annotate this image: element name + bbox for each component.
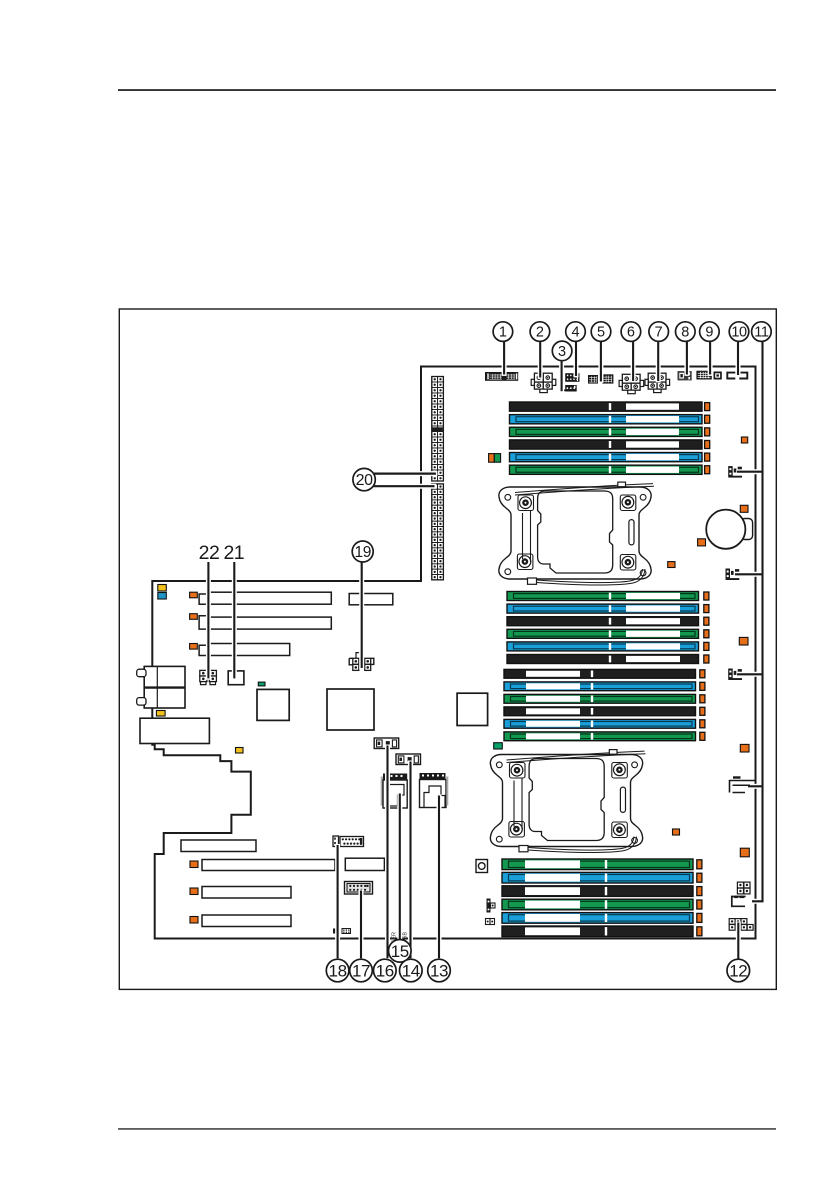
DIMM latch B-3: [704, 617, 709, 625]
bottom PCIe slot row 3: [190, 917, 198, 924]
svg-text:21: 21: [223, 542, 244, 564]
DIMM latch A-1: [705, 403, 710, 411]
callout 19: [352, 541, 373, 562]
connector 14 (SATA): [396, 754, 421, 765]
callout 4: [566, 322, 586, 342]
orange component left col 2: [190, 614, 198, 620]
motherboard outline: [152, 367, 755, 939]
connector 2: [534, 373, 543, 382]
leader line 9: [708, 341, 713, 376]
connector 17 header: [345, 882, 373, 895]
DIMM latch D-2: [697, 873, 702, 882]
leader line 7: [656, 341, 661, 383]
green component: [258, 682, 265, 686]
right column orange component 3: [739, 637, 748, 645]
DIMM slot C-2 (B): [504, 682, 696, 691]
connector 3: [562, 389, 567, 391]
callout 16: [374, 959, 397, 982]
callout 10: [729, 322, 749, 342]
DIMM slot C-5 (B): [504, 719, 696, 728]
chip 1: [257, 689, 289, 720]
small component left of bank D: [487, 899, 491, 913]
svg-text:11: 11: [754, 325, 769, 341]
bottom PCIe slot row 0: [181, 840, 256, 852]
leader line 18: [335, 844, 340, 960]
connector 13 (internal LAN): [420, 773, 446, 780]
callout 15: [389, 940, 412, 963]
PCIe slot row 3: [209, 644, 289, 656]
svg-text:9: 9: [705, 325, 713, 341]
leader line 20 lower: [374, 484, 436, 489]
DIMM latch C-4: [700, 707, 705, 715]
svg-text:3: 3: [558, 344, 566, 360]
connector 7: [648, 373, 657, 382]
svg-text:13: 13: [430, 961, 448, 980]
CPU socket 1 (upper): [499, 482, 654, 585]
DIMM latch C-5: [700, 720, 705, 728]
DIMM slot B-2 (B): [507, 604, 699, 613]
DIMM slot D-3 (K): [502, 886, 693, 897]
connector 18 header: [333, 836, 339, 847]
DIMM slot B-3 (K): [507, 617, 699, 626]
connector 1: [485, 372, 518, 381]
bottom PCIe slot row 1 right segment: [345, 858, 384, 870]
fan stub line 1: [742, 469, 762, 474]
connector 10: [727, 373, 735, 379]
DIMM slot B-6 (K): [507, 655, 699, 664]
right column orange component 2: [740, 505, 748, 512]
svg-text:1: 1: [499, 325, 507, 341]
DIMM latch A-3: [705, 428, 710, 436]
callout 8: [676, 322, 696, 342]
DIMM slot D-4 (G): [502, 899, 693, 910]
DIMM latch C-6: [700, 732, 705, 740]
DIMM slot C-1 (K): [504, 669, 696, 678]
CMOS battery: [706, 510, 745, 549]
right column orange component 5: [740, 848, 749, 857]
DIMM slot A-1 (K): [510, 402, 703, 411]
DIMM slot B-4 (G): [507, 629, 699, 638]
orange component near socket 2: [673, 829, 680, 835]
bottom PCIe slot row 2: [190, 888, 198, 895]
front panel header upper block (item 20): [432, 377, 438, 383]
leader line 13: [437, 795, 442, 960]
DIMM latch A-5: [705, 453, 710, 461]
svg-text:4: 4: [571, 325, 579, 341]
svg-text:8: 8: [681, 325, 689, 341]
DIMM latch D-5: [697, 913, 702, 922]
orange+green component pair left of bank A: [489, 454, 495, 463]
callout 2: [530, 322, 550, 342]
DIMM slot A-3 (G): [510, 427, 703, 436]
DIMM slot D-2 (B): [502, 872, 693, 883]
PCIe slot row 1 bracket: [199, 594, 208, 604]
DIMM slot C-3 (G): [504, 694, 696, 703]
DIMM slot B-1 (G): [507, 592, 699, 601]
callout 9: [700, 322, 720, 342]
PCIe slot row 2: [209, 617, 331, 629]
orange component left of battery: [698, 539, 706, 546]
DIMM latch C-2: [700, 682, 705, 690]
orange component left col 1: [190, 592, 198, 598]
fan connector FAN4 (item 11): [730, 781, 756, 793]
callout 6: [621, 322, 641, 342]
connector 5: [588, 375, 598, 384]
DIMM latch B-6: [704, 655, 709, 663]
connector 19 pin block: [349, 658, 353, 665]
leader line 15: [397, 793, 402, 941]
DIMM latch D-4: [697, 900, 702, 909]
DIMM latch C-1: [700, 670, 705, 678]
callout 13: [428, 959, 451, 982]
DIMM latch B-1: [704, 592, 709, 600]
connector 4: [565, 373, 579, 382]
2-pin jumper left of bank D: [486, 919, 491, 925]
svg-text:19: 19: [354, 544, 370, 561]
blue component top-left: [158, 593, 167, 600]
chip 3: [457, 693, 488, 725]
DIMM latch B-2: [704, 605, 709, 613]
rear I/O D-sub connector: [144, 666, 185, 708]
svg-text:2: 2: [536, 325, 544, 341]
fan connector FAN1 (item 11): [728, 466, 733, 477]
DIMM latch B-4: [704, 630, 709, 638]
svg-text:6: 6: [627, 325, 635, 341]
page top rule: [118, 89, 776, 91]
PCIe slot row 2 bracket: [199, 616, 208, 629]
svg-text:16: 16: [376, 961, 394, 980]
svg-text:22: 22: [199, 542, 220, 564]
leader line 2: [538, 341, 543, 379]
DIMM latch D-3: [697, 887, 702, 896]
callout 11: [752, 322, 772, 342]
leader line 19: [359, 561, 364, 669]
yellow component near box: [236, 748, 244, 754]
svg-text:12: 12: [729, 961, 747, 980]
svg-text:14: 14: [402, 961, 420, 980]
battery clip: [741, 519, 753, 540]
PCIe slot row 3 bracket: [199, 645, 208, 655]
DIMM slot A-6 (G): [510, 465, 703, 474]
callout 18: [326, 959, 349, 982]
callout 3: [552, 341, 572, 361]
DIMM slot D-5 (B): [502, 913, 693, 924]
svg-text:5: 5: [597, 325, 605, 341]
2x2 pin block above item 11 end: [737, 882, 743, 888]
CPU socket 2 (lower): [490, 750, 645, 853]
PCIe slot row 1 right segment: [349, 594, 393, 605]
callout 12: [727, 959, 750, 982]
right column orange component 4: [740, 744, 749, 752]
DIMM slot A-2 (B): [510, 415, 703, 424]
figure frame: [119, 309, 776, 989]
rear I/O block (LAN/USB): [140, 718, 209, 743]
leader line 14: [408, 761, 413, 960]
callout 1: [493, 322, 513, 342]
connector 8: [678, 371, 692, 380]
DIMM latch A-4: [705, 440, 710, 448]
DIMM slot D-1 (G): [502, 859, 693, 870]
callout 7: [649, 322, 669, 342]
chip 2: [327, 689, 374, 730]
leader line 1: [502, 341, 507, 376]
DIMM latch D-1: [697, 860, 702, 869]
fan stub line 3: [745, 672, 762, 677]
leader line 12: [736, 922, 741, 961]
connector 16 (SATA): [374, 738, 399, 749]
fan connector FAN3 (item 11): [728, 669, 733, 680]
connector at item 11 line end: [732, 897, 746, 907]
DIMM slot C-4 (K): [504, 707, 696, 716]
yellow component top-left: [158, 585, 167, 592]
page bottom rule: [118, 1128, 776, 1129]
svg-text:10: 10: [731, 325, 747, 341]
svg-text:20: 20: [356, 472, 373, 489]
fan connector FAN2 (item 11): [726, 569, 731, 580]
front panel header lower block (item 20): [432, 484, 438, 489]
callout 17: [350, 959, 373, 982]
leader line 3: [559, 360, 564, 393]
DIMM latch D-6: [697, 927, 702, 936]
connector 15 (internal USB): [381, 777, 383, 806]
connector 21 socket: [228, 671, 244, 685]
DIMM latch A-6: [705, 466, 710, 474]
D-sub prong lower: [137, 698, 146, 706]
bottom PCIe slot row 1: [190, 861, 198, 868]
leader line 20 upper: [374, 471, 437, 476]
callout 20: [353, 468, 375, 490]
leader line 22: [206, 561, 211, 680]
callout 5: [591, 322, 611, 342]
callout 14: [400, 959, 423, 982]
fan stub line 4: [750, 784, 762, 789]
D-sub prong upper: [137, 669, 146, 677]
DIMM slot A-5 (B): [510, 453, 703, 462]
leader line 5: [598, 341, 603, 383]
leader line 8: [684, 341, 689, 376]
svg-text:7: 7: [655, 325, 663, 341]
orange component below socket 1: [668, 562, 675, 568]
svg-text:15: 15: [391, 942, 409, 961]
DIMM slot C-6 (G): [504, 732, 696, 741]
DIMM slot D-6 (K): [502, 926, 693, 937]
screw hole bottom-left of bank D: [476, 860, 488, 873]
leader line 17: [359, 890, 364, 960]
DIMM slot B-5 (B): [507, 642, 699, 651]
leader line 11: [753, 342, 763, 902]
connector 9: [696, 371, 711, 380]
fan stub line 2: [743, 572, 762, 577]
DIMM slot A-4 (K): [510, 440, 703, 449]
PCIe slot row 1: [209, 592, 331, 604]
leader line 10: [736, 341, 741, 377]
connector 6: [622, 374, 631, 383]
leader line 21: [232, 561, 237, 680]
DIMM latch C-3: [700, 695, 705, 703]
DIMM latch B-5: [704, 642, 709, 650]
tiny header pair bottom: [333, 929, 336, 934]
leader line 4: [574, 341, 579, 378]
orange component left col 3: [190, 644, 198, 650]
connector 22 pin block: [200, 670, 207, 676]
leader line 6: [631, 341, 636, 383]
yellow component below D-sub: [156, 711, 165, 717]
leader line 16: [385, 745, 390, 960]
DIMM latch A-2: [705, 415, 710, 423]
right column orange component 1: [741, 437, 747, 443]
connector 12 jumper block: [729, 919, 735, 925]
green component above socket 2: [494, 743, 503, 749]
svg-text:17: 17: [352, 961, 370, 980]
svg-text:18: 18: [329, 961, 347, 980]
